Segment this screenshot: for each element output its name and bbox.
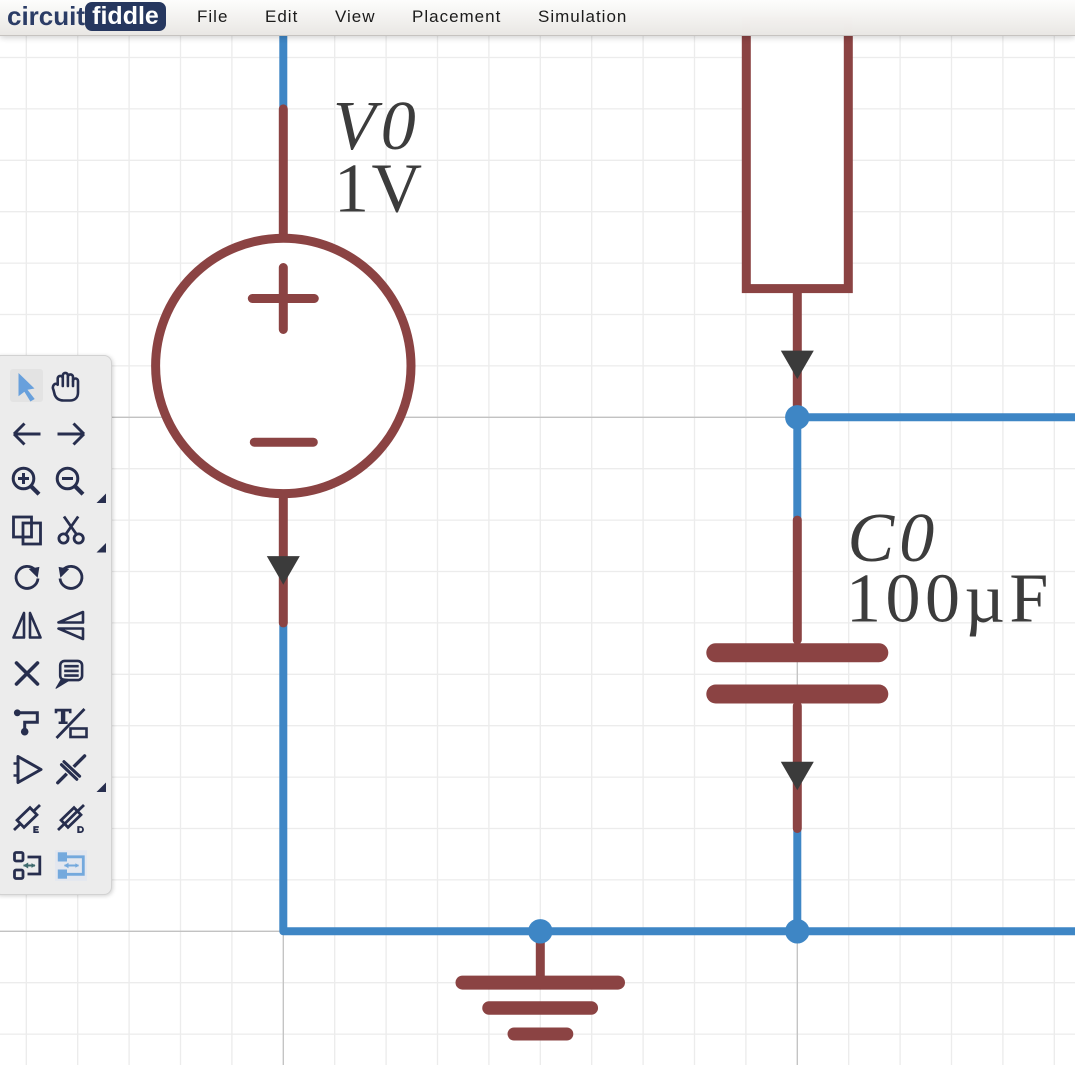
toolbar panel: [0, 355, 112, 895]
tool comment: [56, 660, 82, 687]
wire node A to right: [797, 413, 1075, 421]
capacitor C0: [716, 520, 879, 828]
tool subcircuit: [15, 852, 40, 878]
tool copy: [14, 517, 41, 544]
tool subcircuit alt: [59, 853, 83, 877]
menu Simulation: [538, 7, 627, 27]
current arrow R0: [781, 351, 814, 380]
tool flip vertical: [59, 612, 84, 639]
menu View: [335, 7, 376, 27]
menu Placement: [412, 7, 501, 27]
tool select cursor: [19, 373, 35, 402]
tool wire label: [14, 709, 37, 735]
voltage source V0: [156, 109, 411, 623]
tool component E: [14, 805, 40, 833]
wire C0 to ground rail: [793, 829, 801, 932]
menu bar: [0, 0, 1075, 36]
menu File: [197, 7, 228, 27]
svg-text:1V: 1V: [334, 151, 425, 228]
tool no-connect: [58, 755, 85, 782]
tool cut scissors: [59, 516, 83, 543]
wire top to V0: [279, 35, 287, 109]
nc flyout corner: [97, 782, 107, 792]
node B junction dot: [785, 919, 809, 943]
cut flyout corner: [97, 543, 107, 553]
tool subcircuit alt highlight: [55, 850, 87, 881]
svg-text:100µF: 100µF: [846, 561, 1053, 638]
menu Edit: [265, 7, 298, 27]
logo fiddle badge: [85, 2, 166, 31]
tool undo arrow: [14, 423, 41, 444]
zoom flyout corner: [97, 493, 107, 503]
ground junction dot: [528, 919, 552, 943]
current arrow V0: [267, 556, 300, 585]
tool text: [55, 708, 87, 737]
wire node A to C0: [793, 417, 801, 520]
resistor R0: [746, 20, 848, 417]
tool zoom in: [13, 468, 39, 494]
tool redo arrow: [58, 423, 85, 444]
tool select highlight: [10, 369, 43, 402]
tool flip horizontal: [14, 613, 41, 638]
tool rotate cw: [16, 566, 39, 588]
tool rotate ccw: [59, 566, 82, 588]
tool zoom out: [57, 468, 83, 494]
tool pan hand: [53, 372, 78, 400]
tool component D: [58, 805, 84, 833]
current arrow C0: [781, 762, 814, 791]
tool delete: [17, 663, 38, 684]
ground: [463, 931, 619, 1034]
tool buffer probe: [14, 756, 42, 782]
wire V0 bottom to ground rail: [283, 623, 1075, 931]
node A junction dot: [785, 405, 809, 429]
logo circuit text: [7, 1, 85, 32]
